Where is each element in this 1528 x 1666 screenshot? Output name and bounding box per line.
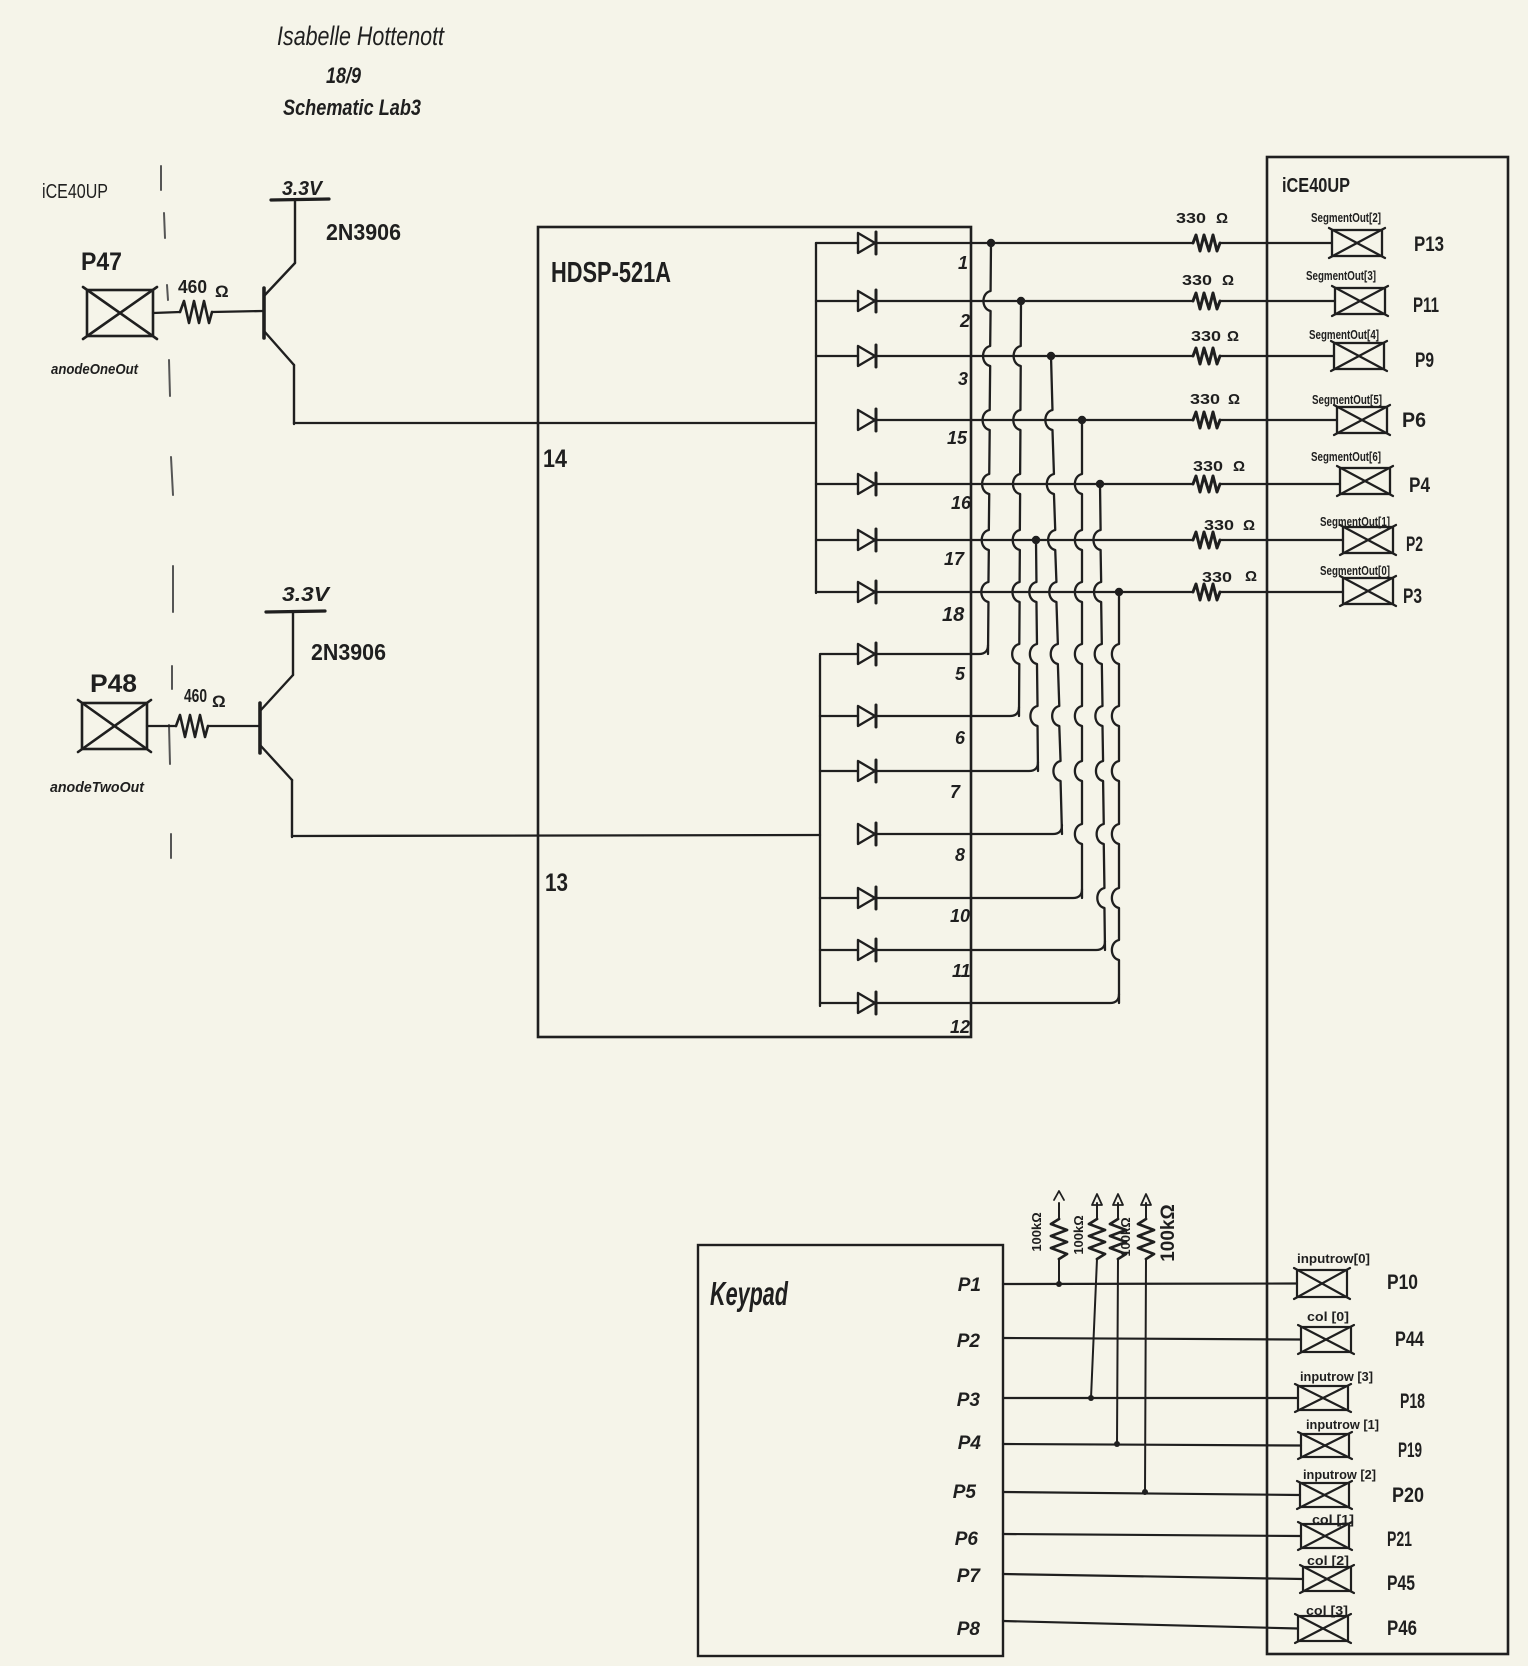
svg-text:16: 16 — [951, 493, 972, 513]
svg-text:Ω: Ω — [1216, 210, 1228, 227]
svg-text:100kΩ: 100kΩ — [1158, 1204, 1179, 1262]
svg-text:Ω: Ω — [215, 282, 229, 301]
svg-text:Ω: Ω — [1227, 328, 1239, 345]
svg-text:Ω: Ω — [1233, 458, 1245, 475]
svg-text:Ω: Ω — [1243, 517, 1255, 534]
svg-text:P47: P47 — [81, 248, 122, 276]
svg-text:P20: P20 — [1392, 1484, 1424, 1507]
svg-text:inputrow [2]: inputrow [2] — [1303, 1467, 1376, 1482]
svg-text:P19: P19 — [1398, 1439, 1422, 1462]
svg-text:2N3906: 2N3906 — [326, 219, 401, 245]
svg-text:330: 330 — [1191, 328, 1221, 345]
svg-text:P13: P13 — [1414, 233, 1444, 256]
svg-text:460: 460 — [184, 686, 207, 706]
svg-text:17: 17 — [944, 549, 965, 569]
svg-text:HDSP-521A: HDSP-521A — [551, 257, 671, 289]
svg-text:anodeOneOut: anodeOneOut — [51, 361, 139, 378]
svg-text:1: 1 — [958, 253, 968, 273]
svg-text:P2: P2 — [1406, 533, 1423, 556]
svg-text:col [2]: col [2] — [1307, 1553, 1349, 1568]
svg-text:18: 18 — [942, 604, 965, 626]
svg-text:SegmentOut[5]: SegmentOut[5] — [1312, 392, 1382, 407]
svg-text:P9: P9 — [1415, 349, 1434, 372]
svg-text:330: 330 — [1190, 391, 1220, 408]
svg-text:SegmentOut[2]: SegmentOut[2] — [1311, 210, 1381, 225]
svg-text:P4: P4 — [958, 1433, 982, 1454]
svg-text:P6: P6 — [1402, 409, 1426, 432]
svg-text:330: 330 — [1182, 272, 1212, 289]
svg-text:P48: P48 — [90, 670, 137, 698]
svg-text:iCE40UP: iCE40UP — [1282, 175, 1350, 197]
svg-text:7: 7 — [950, 782, 961, 802]
svg-text:460: 460 — [178, 277, 207, 297]
svg-text:P1: P1 — [958, 1275, 981, 1296]
svg-text:col [3]: col [3] — [1306, 1603, 1348, 1618]
svg-text:2: 2 — [959, 311, 970, 331]
svg-text:18/9: 18/9 — [326, 63, 362, 88]
svg-text:330: 330 — [1193, 458, 1223, 475]
svg-text:P44: P44 — [1395, 1328, 1424, 1351]
svg-text:3.3V: 3.3V — [282, 178, 324, 200]
svg-text:P8: P8 — [957, 1619, 981, 1640]
svg-text:P2: P2 — [957, 1331, 981, 1352]
svg-text:P6: P6 — [955, 1529, 979, 1550]
svg-text:P46: P46 — [1387, 1617, 1417, 1640]
svg-text:Ω: Ω — [1222, 272, 1234, 289]
svg-text:100kΩ: 100kΩ — [1118, 1217, 1133, 1256]
svg-text:SegmentOut[1]: SegmentOut[1] — [1320, 514, 1390, 529]
svg-text:2N3906: 2N3906 — [311, 639, 386, 665]
svg-text:P3: P3 — [1403, 585, 1422, 608]
svg-text:13: 13 — [545, 869, 568, 897]
svg-text:SegmentOut[6]: SegmentOut[6] — [1311, 449, 1381, 464]
svg-text:330: 330 — [1176, 210, 1206, 227]
svg-text:330: 330 — [1204, 517, 1234, 534]
svg-text:Ω: Ω — [212, 692, 226, 711]
svg-text:inputrow [3]: inputrow [3] — [1300, 1369, 1373, 1384]
svg-text:P45: P45 — [1387, 1572, 1415, 1595]
svg-text:12: 12 — [950, 1017, 970, 1037]
svg-text:col [1]: col [1] — [1312, 1512, 1354, 1527]
svg-text:Ω: Ω — [1245, 568, 1257, 585]
svg-text:P18: P18 — [1400, 1390, 1425, 1413]
svg-text:SegmentOut[4]: SegmentOut[4] — [1309, 327, 1379, 342]
svg-text:8: 8 — [955, 845, 965, 865]
svg-text:anodeTwoOut: anodeTwoOut — [50, 779, 145, 796]
svg-text:col [0]: col [0] — [1307, 1309, 1349, 1324]
svg-text:P10: P10 — [1387, 1271, 1418, 1294]
svg-text:P3: P3 — [957, 1390, 981, 1411]
svg-text:iCE40UP: iCE40UP — [42, 181, 108, 203]
svg-text:Keypad: Keypad — [710, 1275, 789, 1312]
svg-text:14: 14 — [543, 445, 567, 473]
svg-text:10: 10 — [950, 906, 970, 926]
svg-text:P5: P5 — [953, 1482, 977, 1503]
svg-text:330: 330 — [1202, 569, 1232, 586]
svg-text:100kΩ: 100kΩ — [1071, 1215, 1086, 1254]
svg-text:P21: P21 — [1387, 1528, 1412, 1551]
svg-text:P4: P4 — [1409, 474, 1430, 497]
svg-text:3: 3 — [958, 369, 968, 389]
svg-text:Isabelle Hottenott: Isabelle Hottenott — [277, 21, 445, 51]
svg-text:Schematic Lab3: Schematic Lab3 — [283, 95, 421, 120]
svg-text:Ω: Ω — [1228, 391, 1240, 408]
svg-text:15: 15 — [947, 428, 968, 448]
svg-text:3.3V: 3.3V — [282, 584, 331, 606]
svg-text:P11: P11 — [1413, 294, 1439, 317]
svg-text:P7: P7 — [957, 1566, 982, 1587]
svg-text:5: 5 — [955, 664, 966, 684]
svg-text:100kΩ: 100kΩ — [1029, 1212, 1044, 1251]
svg-text:inputrow[0]: inputrow[0] — [1297, 1251, 1370, 1266]
svg-text:SegmentOut[3]: SegmentOut[3] — [1306, 268, 1376, 283]
svg-text:6: 6 — [955, 728, 966, 748]
svg-text:11: 11 — [952, 961, 971, 981]
svg-text:SegmentOut[0]: SegmentOut[0] — [1320, 563, 1390, 578]
svg-text:inputrow [1]: inputrow [1] — [1306, 1417, 1379, 1432]
